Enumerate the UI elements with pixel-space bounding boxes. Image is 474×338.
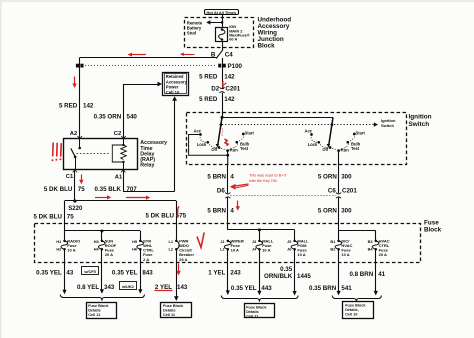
label Accessory Time Delay (RAP) Relay: [140, 140, 167, 168]
svg-text:P100: P100: [228, 63, 243, 70]
svg-text:Test: Test: [240, 146, 249, 151]
relay internal dashed link: [77, 153, 111, 155]
svg-text:0.35 BLK: 0.35 BLK: [95, 186, 122, 193]
svg-text:w/CF5: w/CF5: [83, 269, 96, 274]
fuse block dashed box: [35, 224, 421, 263]
terminal C2: [114, 131, 126, 139]
red down arrow on left wire: [72, 77, 76, 89]
svg-text:D2: D2: [211, 86, 219, 93]
label 0.35 ORN 540: [94, 114, 138, 121]
wire ignition feed branch: [221, 116, 334, 119]
label Ignition Switch (inner): [381, 118, 396, 128]
bracket group 1: [60, 295, 144, 301]
wire STR WHL out with down arrow: [138, 249, 142, 293]
svg-text:Cell 11: Cell 11: [246, 314, 258, 318]
svg-text:H3: H3: [94, 239, 100, 244]
label 5 ORN 300 (lower): [318, 207, 352, 214]
label 0.35 YEL 43: [36, 269, 74, 276]
svg-text:Cell 11: Cell 11: [163, 313, 175, 317]
svg-text:75: 75: [78, 186, 85, 193]
tag w/CF5: [82, 267, 99, 275]
svg-text:41: 41: [378, 271, 385, 278]
red annotation arrow left 1: [128, 53, 147, 57]
label 1 YEL 243: [208, 269, 241, 276]
svg-text:B3: B3: [368, 239, 374, 244]
label 5 ORN 300 (upper): [318, 173, 352, 180]
label 0.35 BLK 707: [95, 186, 138, 193]
wire 5 ORN 300 into fuse block: [338, 197, 340, 231]
svg-text:142: 142: [83, 103, 94, 110]
terminal A1: [115, 170, 126, 181]
wire feed down to C201: [222, 58, 224, 89]
svg-text:Run: Run: [230, 147, 238, 152]
tag w/UK2: [120, 282, 137, 290]
svg-text:5 BRN: 5 BRN: [207, 173, 226, 180]
wire A1 to RAP box (0.35 BLK 707): [123, 96, 177, 191]
fuse RADIO (RADIO Fuse 10 A): [56, 238, 80, 252]
red annotation exclamation marks left of relay: [51, 143, 61, 162]
wire 5 BRN 4 into fuse block: [227, 197, 229, 230]
svg-text:Accessory: Accessory: [166, 79, 188, 84]
relay box (accessory time delay RAP relay): [64, 139, 138, 170]
svg-text:Cell 10: Cell 10: [166, 90, 180, 95]
svg-text:B1: B1: [330, 239, 336, 244]
red annotation arrow left 2: [180, 52, 195, 56]
connector C6 C201 (right): [328, 187, 357, 198]
svg-text:A1: A1: [115, 175, 123, 181]
ignition switch pole 1 (left): [189, 117, 255, 165]
svg-text:Lock: Lock: [197, 142, 207, 147]
svg-text:Fuse Block: Fuse Block: [345, 304, 366, 308]
svg-text:Start: Start: [245, 130, 255, 135]
wire S220 left drop to fuse block: [64, 201, 66, 241]
svg-text:Off: Off: [211, 147, 218, 152]
label 0.8 BRN 41: [349, 271, 385, 278]
ignition switch dashed box: [187, 113, 407, 165]
grommet on left wire: [76, 64, 84, 68]
svg-text:C201: C201: [342, 187, 357, 194]
svg-text:Fuse Block: Fuse Block: [163, 304, 184, 308]
label 0.35 YEL 843: [112, 269, 153, 276]
red down arrow below C1: [79, 175, 83, 185]
wire main feed horizontal run: [80, 57, 218, 59]
label 5 RED 142 (feed lower): [199, 96, 235, 103]
grommet P100: [218, 63, 242, 70]
svg-text:Ignition: Ignition: [409, 114, 432, 121]
svg-text:540: 540: [127, 114, 138, 121]
svg-text:H6: H6: [132, 247, 138, 252]
svg-text:Acc: Acc: [304, 128, 312, 133]
svg-text:Cell 11: Cell 11: [88, 313, 100, 317]
svg-text:0.8 YEL: 0.8 YEL: [77, 284, 99, 291]
red scribble on left blade: [222, 129, 228, 146]
svg-text:Switch: Switch: [409, 121, 430, 128]
fuse block details box 3: [245, 304, 275, 319]
svg-text:Stud: Stud: [187, 31, 197, 36]
red down arrow on PWR WDO out: [176, 264, 180, 276]
red note text: [249, 174, 288, 183]
label 0.35 BRN 541: [309, 285, 352, 292]
ignition mechanical dashed line with arrow: [222, 122, 378, 126]
svg-text:60 A: 60 A: [229, 37, 237, 42]
svg-text:Off: Off: [322, 147, 329, 152]
label 5 BRN 4 (lower): [207, 207, 234, 214]
svg-text:4: 4: [230, 173, 234, 180]
red annotation arrow right 1: [95, 195, 111, 199]
svg-text:C201: C201: [225, 86, 240, 93]
svg-text:443: 443: [261, 285, 272, 292]
svg-text:5 BRN: 5 BRN: [207, 207, 226, 214]
svg-text:C1: C1: [66, 174, 74, 180]
svg-text:Run: Run: [341, 147, 349, 152]
svg-text:707: 707: [126, 186, 137, 193]
svg-text:0.35: 0.35: [280, 266, 293, 273]
svg-text:0.35 YEL: 0.35 YEL: [112, 269, 138, 276]
label Remote Battery Stud: [187, 20, 203, 35]
fuse block details box 4: [343, 302, 374, 319]
label 2 YEL 143: [155, 284, 188, 291]
bus wire group 2: [228, 228, 295, 241]
svg-text:Relay: Relay: [140, 163, 154, 169]
svg-text:25 A: 25 A: [179, 257, 187, 262]
fuse MALL (MALL Fuse 10 A): [252, 238, 274, 252]
terminal C1: [66, 170, 77, 180]
fuse PWR (PWR WDO Circuit Breaker 25 A): [169, 238, 195, 261]
wire HVAC CTRL out with down arrow: [374, 249, 378, 295]
svg-text:343: 343: [104, 284, 115, 291]
wire fuse output down to connector C4: [222, 42, 224, 51]
label Hot At All Times: [205, 10, 239, 15]
wire C2 to RAP box (0.35 ORN 540): [124, 82, 163, 139]
svg-text:142: 142: [224, 73, 235, 80]
wire left vertical drop to relay A2: [79, 58, 81, 139]
wire feed into ignition switch: [222, 93, 224, 118]
svg-text:S220: S220: [68, 206, 83, 212]
svg-text:843: 843: [142, 269, 153, 276]
svg-text:A2: A2: [70, 131, 77, 137]
svg-text:C6: C6: [328, 187, 336, 194]
svg-text:Block: Block: [258, 43, 276, 50]
fuse DIC/ (DIC/ HVAC Fuse 10 A): [330, 238, 352, 257]
bracket group 3: [221, 296, 298, 302]
svg-text:C2: C2: [114, 131, 121, 137]
wire RADIO out with down arrow: [62, 249, 66, 294]
red check at circuit breaker: [197, 233, 204, 248]
svg-text:43: 43: [66, 269, 73, 276]
svg-text:Block: Block: [424, 227, 442, 234]
wire MALL out with down arrow: [257, 249, 261, 295]
svg-text:Details,: Details,: [345, 308, 359, 312]
label 5 RED 142 (feed upper): [199, 73, 235, 80]
svg-text:Details: Details: [88, 309, 100, 313]
svg-text:D6: D6: [217, 187, 225, 194]
svg-text:5 DK BLU: 5 DK BLU: [44, 186, 73, 193]
label 5 BRN 4 (upper): [207, 173, 234, 180]
fuse block details box 1: [87, 303, 117, 319]
label 0.35 YEL 443: [231, 285, 272, 292]
svg-text:Start: Start: [356, 130, 366, 135]
terminal A2: [70, 131, 82, 139]
svg-text:5 ORN: 5 ORN: [318, 207, 337, 214]
red down arrow below D6 label: [236, 201, 240, 211]
fuse STR (STR WHL CTRL Fuse 2 A): [132, 238, 154, 261]
fuse SUN (SUN ROOF Fuse 20 A): [94, 238, 117, 257]
relay coil: [112, 139, 126, 170]
wire DIC/HVAC out with down arrow: [337, 249, 341, 295]
svg-text:5 RED: 5 RED: [199, 96, 218, 103]
svg-text:Fuse Block: Fuse Block: [88, 304, 109, 308]
svg-text:243: 243: [230, 269, 241, 276]
label Ignition Switch (outer): [409, 114, 432, 128]
svg-text:142: 142: [224, 96, 235, 103]
svg-text:Cell 10: Cell 10: [345, 313, 357, 317]
wire C1 down to splice S220: [74, 170, 76, 201]
label 5 DK BLU 75 (right drop): [145, 213, 186, 220]
svg-text:Lock: Lock: [308, 142, 318, 147]
svg-text:143: 143: [177, 284, 188, 291]
svg-text:Power: Power: [166, 85, 179, 90]
svg-text:75: 75: [67, 213, 74, 220]
svg-text:75: 75: [179, 213, 186, 220]
wire SUN ROOF out with down arrow: [100, 249, 104, 293]
label 5 DK BLU 75 (left drop): [33, 213, 74, 220]
svg-text:B2: B2: [330, 247, 336, 252]
svg-text:1445: 1445: [297, 273, 311, 280]
svg-text:5 DK BLU: 5 DK BLU: [145, 213, 174, 220]
red check at D2: [223, 81, 227, 89]
svg-text:Fuse: Fuse: [424, 219, 439, 226]
svg-text:w/UK2: w/UK2: [121, 284, 135, 289]
fuse MALL (MALL PGM Fuse 10 A): [287, 238, 309, 257]
svg-text:ORN/BLK: ORN/BLK: [264, 273, 293, 280]
red arrow to D6: [230, 184, 249, 190]
svg-text:5 RED: 5 RED: [59, 103, 78, 110]
svg-text:10 A: 10 A: [262, 248, 270, 253]
svg-text:This was reset to B+/T: This was reset to B+/T: [249, 174, 288, 178]
wire right ignition output to C6: [338, 165, 340, 193]
splice S220: [65, 199, 177, 211]
svg-text:10 A: 10 A: [341, 252, 349, 257]
svg-text:H2: H2: [56, 247, 62, 252]
svg-text:0.35 YEL: 0.35 YEL: [231, 285, 257, 292]
underhood accessory wiring junction block (dashed box): [185, 18, 254, 48]
wire battery stud branch with left arrow: [206, 20, 223, 24]
bracket group 4: [332, 296, 381, 302]
fuse WIPER (WIPER Fuse 10 A): [220, 238, 244, 252]
svg-text:2 A: 2 A: [143, 257, 149, 262]
svg-text:Retained: Retained: [166, 74, 184, 79]
svg-text:20 A: 20 A: [105, 252, 113, 257]
bus wire group 1: [65, 230, 141, 241]
top scan edge: [0, 0, 474, 2]
wire WIPER out with down arrow: [226, 249, 230, 295]
svg-text:5 ORN: 5 ORN: [318, 173, 337, 180]
svg-text:5 DK BLU: 5 DK BLU: [33, 213, 62, 220]
svg-text:0.35 BRN: 0.35 BRN: [309, 285, 337, 292]
svg-text:Hot At All Times: Hot At All Times: [206, 10, 236, 15]
left scan edge: [0, 0, 2, 338]
label 5 DK BLU 75 (C1 wire): [44, 186, 85, 193]
wire left ignition output to D6: [227, 165, 229, 193]
svg-text:Switch: Switch: [381, 123, 394, 128]
label 0.35 ORN/BLK 1445: [264, 266, 311, 280]
svg-text:B4: B4: [368, 247, 374, 252]
label 0.8 YEL 343: [77, 284, 115, 291]
svg-text:Fuse Block: Fuse Block: [246, 305, 267, 309]
fuse HVAC (HVAC CTRL Fuse 20 A): [368, 238, 390, 257]
svg-text:with the Key ON.: with the Key ON.: [249, 179, 278, 183]
wire PWR WDO out with down arrow into details box: [174, 249, 179, 301]
svg-text:Test: Test: [351, 146, 360, 151]
retained accessory power box: [163, 73, 189, 96]
wire from hot feed into fuse: [222, 15, 224, 27]
red annotation arrow right 2: [126, 196, 150, 200]
svg-text:C4: C4: [225, 51, 233, 58]
connector B C4 slash: [211, 50, 233, 59]
wire MALL PGM out with down arrow: [293, 249, 297, 295]
svg-text:H4: H4: [94, 247, 100, 252]
svg-text:541: 541: [341, 285, 352, 292]
svg-text:Details: Details: [246, 310, 258, 314]
svg-text:20 A: 20 A: [379, 252, 387, 257]
svg-text:300: 300: [341, 173, 352, 180]
fuse IGN MAIN 2 MaxiFuse 60 A: [216, 28, 228, 42]
red down stroke on 75 wire: [176, 206, 179, 218]
label 5 RED 142 (left wire): [59, 103, 94, 110]
svg-text:5 RED: 5 RED: [199, 73, 218, 80]
connector D6 C201 (left): [217, 187, 231, 198]
connector breakline dotted: [231, 195, 337, 197]
bus wire group 3: [339, 231, 376, 241]
svg-text:H5: H5: [132, 239, 138, 244]
red underline under 2 YEL: [155, 290, 173, 292]
label Fuse Block: [424, 219, 442, 233]
fuse block details box 2: [161, 303, 192, 318]
svg-text:Details: Details: [163, 309, 175, 313]
svg-text:10 A: 10 A: [297, 252, 305, 257]
svg-text:10 A: 10 A: [67, 248, 75, 253]
svg-text:0.35 ORN: 0.35 ORN: [94, 114, 122, 121]
label IGN MAIN 2 MaxiFuse 60 A: [229, 24, 250, 41]
svg-text:Acc: Acc: [193, 128, 201, 133]
svg-text:1 YEL: 1 YEL: [208, 269, 225, 276]
svg-text:300: 300: [341, 207, 352, 214]
relay switch contacts and blade: [71, 139, 81, 170]
svg-text:H1: H1: [56, 239, 62, 244]
label Underhood Accessory Wiring Junction Block: [258, 16, 292, 49]
dotted pass-through line: [85, 65, 217, 67]
connector D2 C201: [211, 86, 240, 93]
svg-text:4: 4: [230, 207, 234, 214]
svg-text:10 A: 10 A: [231, 248, 239, 253]
svg-text:0.35 YEL: 0.35 YEL: [36, 269, 62, 276]
wire S220 right drop to circuit breaker: [176, 201, 178, 241]
ignition switch pole 2 (right): [304, 117, 365, 165]
svg-text:0.8 BRN: 0.8 BRN: [349, 271, 373, 278]
